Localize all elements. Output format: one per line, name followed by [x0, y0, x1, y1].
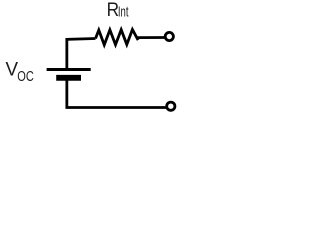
- resistor RInt (zigzag body): [96, 30, 139, 45]
- svg-text:R: R: [107, 0, 119, 20]
- wire: RInt right lead to top terminal: [137, 36, 166, 39]
- wire: VOC negative terminal down and right to bottom terminal: [67, 79, 167, 108]
- svg-text:OC: OC: [17, 67, 34, 84]
- svg-text:V: V: [6, 59, 19, 80]
- wire: VOC positive terminal up and right to resistor RInt: [67, 39, 96, 70]
- node: top output terminal (open circle): [165, 32, 173, 40]
- battery VOC positive plate (long thin): [47, 68, 91, 71]
- battery VOC negative plate (short thick): [56, 75, 81, 81]
- node: bottom output terminal (open circle): [167, 102, 175, 110]
- svg-text:Int: Int: [118, 4, 129, 21]
